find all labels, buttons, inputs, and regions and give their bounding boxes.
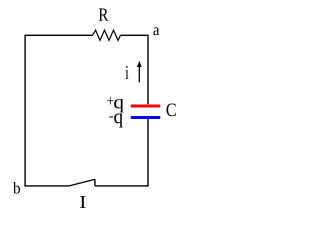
- capacitor C1 top plate (+, red): [131, 105, 161, 108]
- label -q: [109, 113, 122, 127]
- wire: top-left segment, left side, bottom-left segment: [25, 35, 92, 186]
- wire: top-right segment and right side upper, down to capacitor: [121, 35, 149, 104]
- wire: right side lower from capacitor, bottom-right segment: [95, 119, 148, 186]
- label R: [99, 8, 108, 20]
- capacitor C1 bottom plate (-, blue): [131, 116, 161, 119]
- node a: [153, 27, 159, 35]
- switch blade: [69, 179, 94, 186]
- switch contact post: [94, 179, 96, 186]
- current arrow i: [138, 64, 140, 82]
- label I (switch): [80, 196, 86, 208]
- node b: [13, 182, 20, 194]
- label C: [167, 104, 176, 117]
- resistor R1 zigzag: [93, 30, 121, 40]
- label i: [126, 66, 129, 79]
- label +q: [107, 97, 123, 112]
